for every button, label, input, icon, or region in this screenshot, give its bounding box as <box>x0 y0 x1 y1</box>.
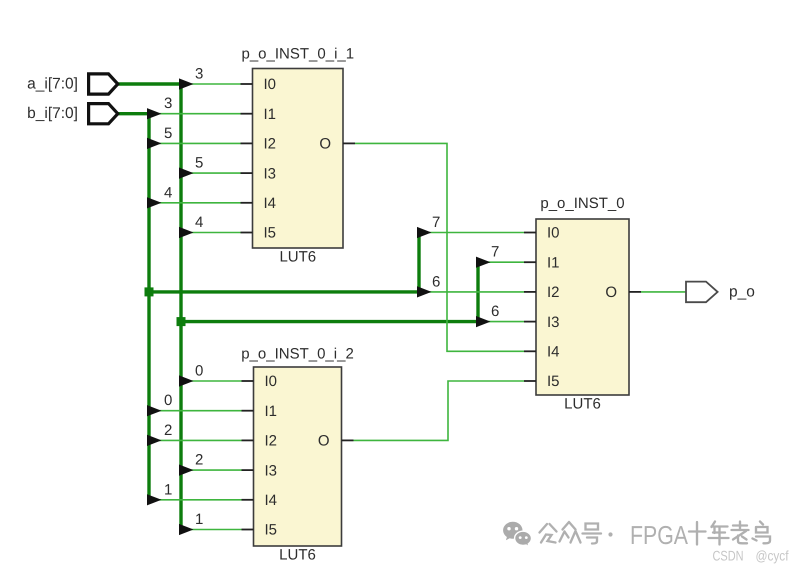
pin stub p_o_INST_0 I4 <box>524 350 536 352</box>
wire: bus from port a_i to vertical bus A <box>118 82 181 85</box>
pin stub p_o_INST_0_i_1 I2 <box>241 142 253 144</box>
pin stub p_o_INST_0_i_2 I3 <box>242 469 254 471</box>
net: bus A to U1 pin I3 <box>181 172 241 174</box>
svg-text:I3: I3 <box>265 462 278 479</box>
svg-text:0: 0 <box>195 363 203 380</box>
svg-text:I4: I4 <box>265 492 278 509</box>
net: bus x419 to U2 pin I2 <box>419 291 524 293</box>
net: bus B to U3 pin I4 <box>149 499 242 501</box>
pin stub p_o_INST_0_i_2 I4 <box>242 499 254 501</box>
net: bus x478 to U2 pin I3 <box>478 321 524 323</box>
svg-text:CSDN: CSDN <box>713 548 744 564</box>
pin stub p_o_INST_0 O <box>629 291 641 293</box>
watermark: chinese char shi <box>689 522 706 545</box>
LUT6 component p_o_INST_0_i_1: body <box>253 69 344 249</box>
net: bus A to U3 pin I3 <box>181 469 242 471</box>
svg-text:LUT6: LUT6 <box>564 396 601 413</box>
net: bus A to U3 pin I0 <box>181 380 242 382</box>
junction: bus A at I3 branch <box>177 317 186 326</box>
wire: horizontal bus A branch toward U2 I3 <box>181 320 478 323</box>
arrow: bus A tap to U3 I3 <box>179 465 194 476</box>
watermark: chinese char gong <box>540 524 557 543</box>
pin stub p_o_INST_0_i_2 I5 <box>242 529 254 531</box>
svg-text:3: 3 <box>164 95 172 112</box>
arrow: bus B tap to U3 I1 <box>147 405 162 416</box>
pin stub p_o_INST_0 I1 <box>524 261 536 263</box>
svg-text:2: 2 <box>195 452 203 469</box>
svg-text:0: 0 <box>164 392 172 409</box>
pin stub p_o_INST_0_i_1 I3 <box>241 172 253 174</box>
net: bus x478 to U2 pin I1 <box>478 261 524 263</box>
arrow: bus B tap to U3 I4 <box>147 494 162 505</box>
pin stub p_o_INST_0_i_1 I4 <box>241 202 253 204</box>
pin stub p_o_INST_0_i_2 I2 <box>242 439 254 441</box>
svg-text:I4: I4 <box>547 344 560 361</box>
svg-text:O: O <box>605 284 617 301</box>
svg-text:5: 5 <box>164 125 172 142</box>
pin stub p_o_INST_0 I5 <box>524 380 536 382</box>
wire: vertical bus B (b_i fanout) <box>147 114 150 500</box>
arrow: bus A tap to U1 I3 <box>179 168 194 179</box>
watermark: chinese char nian <box>709 522 729 545</box>
net: U3 output O to U2 pin I5 <box>354 381 525 440</box>
net: bus A to U1 pin I5 <box>181 232 241 234</box>
svg-text:I5: I5 <box>265 522 278 539</box>
watermark: chinese char hao <box>583 524 602 544</box>
output port p_o <box>686 282 718 303</box>
svg-text:@cycf: @cycf <box>756 548 789 564</box>
svg-text:7: 7 <box>491 244 499 261</box>
svg-text:1: 1 <box>164 481 172 498</box>
net: bus B to U1 pin I2 <box>149 142 241 144</box>
svg-text:I3: I3 <box>547 314 560 331</box>
watermark: chinese char niao <box>753 522 771 544</box>
svg-text:5: 5 <box>195 155 203 172</box>
arrow: bus tap to U2 I3 <box>476 316 491 327</box>
pin stub p_o_INST_0_i_1 I1 <box>241 113 253 115</box>
arrow: bus B tap to U1 I2 <box>147 138 162 149</box>
wire: vertical bus A (a_i fanout) <box>179 84 182 530</box>
svg-text:6: 6 <box>432 273 440 290</box>
wire: bus from port b_i to vertical bus B <box>118 112 149 115</box>
svg-text:I0: I0 <box>265 373 278 390</box>
svg-text:I3: I3 <box>264 165 277 182</box>
svg-text:b_i[7:0]: b_i[7:0] <box>27 105 78 122</box>
svg-text:2: 2 <box>164 422 172 439</box>
junction: bus B at I2 branch <box>145 287 154 296</box>
svg-text:I0: I0 <box>264 76 277 93</box>
watermark: chinese char lao <box>732 522 749 544</box>
svg-text:I5: I5 <box>547 373 560 390</box>
wire: vertical bus stub x419 up to U2 I0 row <box>417 233 420 292</box>
svg-text:3: 3 <box>195 66 203 83</box>
net: U2 output O to port p_o <box>641 291 686 293</box>
svg-text:FPGA: FPGA <box>630 520 689 550</box>
pin stub p_o_INST_0_i_1 I0 <box>241 83 253 85</box>
svg-text:I1: I1 <box>265 403 278 420</box>
LUT6 component p_o_INST_0_i_2: body <box>254 367 342 546</box>
pin stub p_o_INST_0 I3 <box>524 321 536 323</box>
svg-text:LUT6: LUT6 <box>279 249 316 266</box>
svg-text:a_i[7:0]: a_i[7:0] <box>27 76 78 93</box>
net: bus B to U1 pin I1 <box>149 113 241 115</box>
svg-text:I1: I1 <box>264 106 277 123</box>
net: U1 output O to U2 pin I4 <box>355 143 524 351</box>
arrow: bus A tap to U3 I0 <box>179 375 194 386</box>
svg-text:1: 1 <box>195 511 203 528</box>
pin stub p_o_INST_0 I0 <box>524 232 536 234</box>
arrow: bus A tap to U1 I0 <box>179 78 194 89</box>
pin stub p_o_INST_0_i_2 O <box>342 439 354 441</box>
arrow: bus tap to U2 I2 <box>417 286 432 297</box>
net: bus A to U3 pin I5 <box>181 529 242 531</box>
svg-text:4: 4 <box>195 214 203 231</box>
net: bus A to U1 pin I0 <box>181 83 241 85</box>
svg-text:O: O <box>318 433 330 450</box>
net: bus B to U1 pin I4 <box>149 202 241 204</box>
pin stub p_o_INST_0_i_2 I1 <box>242 410 254 412</box>
wire: horizontal bus B branch toward U2 I2 <box>149 290 419 293</box>
svg-text:I2: I2 <box>264 136 277 153</box>
svg-text:7: 7 <box>432 214 440 231</box>
svg-text:4: 4 <box>164 184 172 201</box>
net: bus B to U3 pin I2 <box>149 439 242 441</box>
net: bus x419 to U2 pin I0 <box>419 232 524 234</box>
svg-text:p_o_INST_0_i_2: p_o_INST_0_i_2 <box>241 346 354 363</box>
pin stub p_o_INST_0_i_1 O <box>343 142 355 144</box>
svg-text:I2: I2 <box>265 433 278 450</box>
input port b_i[7:0] <box>89 104 118 124</box>
net: bus B to U3 pin I1 <box>149 410 242 412</box>
input port a_i[7:0] <box>89 74 118 94</box>
arrow: bus B tap to U1 I1 <box>147 108 162 119</box>
arrow: bus A tap to U3 I5 <box>179 524 194 535</box>
watermark: middle dot separator <box>608 532 612 536</box>
svg-text:LUT6: LUT6 <box>279 547 316 564</box>
svg-text:6: 6 <box>491 303 499 320</box>
arrow: bus tap to U2 I0 <box>417 227 432 238</box>
svg-text:p_o_INST_0_i_1: p_o_INST_0_i_1 <box>242 46 355 63</box>
svg-text:O: O <box>319 136 331 153</box>
svg-text:I2: I2 <box>547 284 560 301</box>
svg-text:I5: I5 <box>264 225 277 242</box>
pin stub p_o_INST_0_i_2 I0 <box>242 380 254 382</box>
svg-text:p_o: p_o <box>729 284 755 301</box>
watermark: chinese char zhong <box>560 522 581 543</box>
arrow: bus B tap to U3 I2 <box>147 435 162 446</box>
pin stub p_o_INST_0 I2 <box>524 291 536 293</box>
arrow: bus tap to U2 I1 <box>476 257 491 268</box>
svg-text:p_o_INST_0: p_o_INST_0 <box>540 195 624 212</box>
wire: vertical bus stub x478 up to U2 I1 row <box>476 262 479 321</box>
watermark: WeChat icon <box>503 522 531 547</box>
LUT6 component p_o_INST_0: body <box>536 219 629 395</box>
svg-text:I4: I4 <box>264 195 277 212</box>
svg-text:I0: I0 <box>547 225 560 242</box>
arrow: bus A tap to U1 I5 <box>179 227 194 238</box>
arrow: bus B tap to U1 I4 <box>147 197 162 208</box>
pin stub p_o_INST_0_i_1 I5 <box>241 232 253 234</box>
svg-text:I1: I1 <box>547 254 560 271</box>
